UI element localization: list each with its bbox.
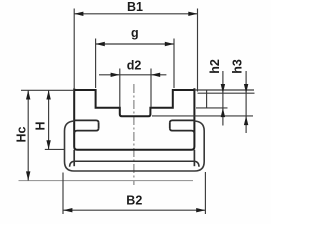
- dimension g: right arrowhead: [165, 42, 174, 46]
- svg-text:d2: d2: [127, 58, 142, 72]
- dimension h3: down arrowhead: [244, 84, 248, 93]
- dimension H: dimension line vertical: [48, 90, 50, 149]
- dimension B2: extension line right: [204, 172, 206, 214]
- interior: right under-ear chamber top line: [170, 120, 195, 123]
- svg-text:B2: B2: [126, 194, 142, 208]
- dimension Hc/H: top reference line (ear top extended left): [21, 89, 74, 91]
- centerline (vertical dash-dot axis): [133, 84, 135, 185]
- dimension H: down arrowhead: [46, 140, 50, 149]
- interior: cavity inner bottom (dished, blending into corners): [70, 161, 199, 167]
- dimension Hc: up arrowhead: [26, 90, 30, 99]
- dimension B1: dimension line: [74, 13, 197, 15]
- dimension H: bottom reference line (shelf extended left): [45, 148, 65, 150]
- dimension d2: right arrowhead pointing left: [151, 73, 160, 77]
- dimension B1: left arrowhead: [74, 12, 83, 16]
- svg-text:Hc: Hc: [15, 126, 29, 142]
- interior: left chamber bottom line with corner to inner wall: [74, 128, 98, 134]
- dimension B1: extension line left: [73, 9, 75, 89]
- svg-text:B1: B1: [127, 0, 143, 14]
- interior: right chamber step: [169, 123, 171, 128]
- dimension h2: up arrowhead: [221, 108, 225, 117]
- dimension B2: right arrowhead: [196, 208, 205, 212]
- interior: right ear edge lower extension: [193, 150, 195, 166]
- dimension d2: left arrowhead pointing right: [111, 73, 120, 77]
- dimension g: extension line right: [173, 39, 175, 89]
- dimension B1: right arrowhead: [188, 12, 197, 16]
- dimension B2: dimension line: [63, 209, 205, 211]
- dimension Hc: down arrowhead: [26, 171, 30, 180]
- rail profile: top block outer contour (ears, channel floors, d2 groove): [74, 88, 194, 150]
- dimension h3: dimension line vertical: [245, 71, 247, 133]
- dimension d2: dimension line (outside arrows): [99, 74, 166, 76]
- dimension d2: extension line left: [119, 69, 121, 108]
- svg-text:g: g: [131, 26, 139, 40]
- dimension g: left arrowhead: [96, 42, 105, 46]
- dimension g: extension line left: [95, 39, 97, 89]
- dimension h2/h3: top reference line (ear top extended right): [194, 89, 254, 91]
- dimension h3: up arrowhead: [244, 116, 248, 125]
- interior: left under-ear chamber top line: [74, 120, 98, 123]
- dimension h3: lower reference line (groove bottom extended): [152, 115, 253, 117]
- dimension Hc: dimension line vertical: [27, 90, 29, 180]
- interior: left chamber step: [98, 123, 100, 128]
- dimension B2: left arrowhead: [63, 208, 72, 212]
- dimension H: up arrowhead: [46, 90, 50, 99]
- dimension h2: dimension line vertical: [222, 71, 224, 126]
- dimension h2/h3: second top reference line: [198, 92, 255, 94]
- svg-text:h2: h2: [208, 59, 222, 74]
- interior: left ear edge lower extension: [73, 150, 75, 166]
- dimension B1: extension line right: [197, 9, 199, 92]
- box outer contour (rounded sides and bottom): [65, 121, 205, 171]
- dimension h2: down arrowhead: [221, 84, 225, 93]
- svg-text:h3: h3: [230, 59, 244, 74]
- interior: right chamber bottom line with corner to inner wall: [170, 128, 195, 134]
- reference connector vertical at profile right: [206, 90, 208, 108]
- dimension d2: extension line right: [150, 69, 152, 108]
- dimension B2: extension line left: [62, 173, 64, 215]
- dimension g: dimension line: [96, 43, 174, 45]
- dimension h2: lower reference line (channel floor extended): [196, 107, 228, 109]
- svg-text:H: H: [34, 121, 48, 130]
- base line under profile: [19, 180, 194, 182]
